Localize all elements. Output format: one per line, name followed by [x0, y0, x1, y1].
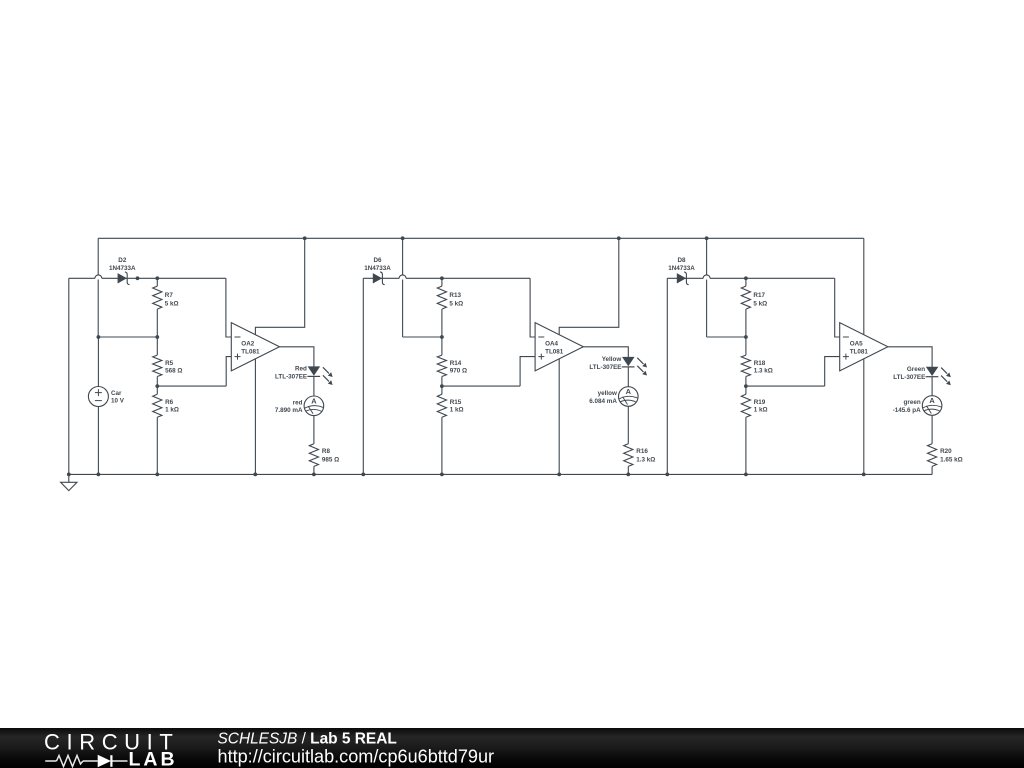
svg-text:R18: R18: [754, 360, 766, 367]
op-amp OA4 TL081: [535, 323, 583, 371]
resistor R16 1.3 kΩ: [624, 444, 633, 467]
svg-text:1 kΩ: 1 kΩ: [450, 407, 464, 414]
resistor R18 1.3 kΩ: [741, 355, 750, 376]
wire: [667, 277, 703, 279]
wire: [97, 238, 99, 275]
svg-text:1 kΩ: 1 kΩ: [754, 407, 768, 414]
resistor R7 5 kΩ: [153, 286, 162, 309]
svg-text:R19: R19: [754, 399, 766, 406]
svg-text:TL081: TL081: [850, 348, 869, 355]
wire: [745, 278, 747, 286]
wire: [68, 278, 70, 474]
svg-text:-145.6 pA: -145.6 pA: [893, 407, 921, 414]
svg-text:LAB: LAB: [129, 748, 178, 768]
wire: [931, 415, 933, 444]
node: [744, 384, 748, 388]
zener diode D2 1N4733A: [118, 274, 126, 283]
wire: [583, 347, 628, 357]
wire: [745, 386, 747, 394]
svg-text:R7: R7: [165, 292, 174, 299]
wire: [156, 377, 158, 387]
svg-text:R15: R15: [450, 399, 462, 406]
wire: [156, 386, 158, 394]
node top rail junction dots: [303, 236, 307, 240]
wire: [313, 416, 315, 444]
svg-text:1 kΩ: 1 kΩ: [165, 407, 179, 414]
wire: [835, 278, 840, 337]
resistor R15 1 kΩ: [437, 394, 446, 417]
svg-text:LTL-307EE: LTL-307EE: [893, 374, 925, 381]
wire: [157, 385, 226, 387]
wire: [706, 280, 708, 338]
wire: [98, 336, 157, 338]
wire: [156, 309, 158, 337]
resistor R19 1 kΩ: [741, 394, 750, 417]
svg-text:A: A: [626, 387, 632, 396]
wire: [313, 466, 315, 474]
wire: [441, 417, 443, 474]
svg-text:970 Ω: 970 Ω: [450, 368, 467, 375]
svg-text:R20: R20: [940, 448, 952, 455]
svg-text:5 kΩ: 5 kΩ: [165, 301, 179, 308]
logo diode: [98, 755, 111, 767]
logo wire: [83, 760, 98, 762]
svg-text:1.3 kΩ: 1.3 kΩ: [754, 368, 773, 375]
svg-text:OA5: OA5: [850, 341, 863, 348]
wire: [745, 377, 747, 387]
node diode pin dot: [136, 276, 140, 280]
ammeter green -145.6 pA: [922, 396, 942, 416]
resistor R13 5 kΩ: [437, 286, 446, 309]
resistor R6 1 kΩ: [153, 394, 162, 417]
resistor R8 985 Ω: [309, 444, 318, 467]
wire: [102, 277, 226, 279]
svg-text:Car: Car: [111, 390, 122, 397]
ammeter yellow 6.084 mA: [619, 387, 639, 407]
svg-text:A: A: [311, 397, 317, 406]
svg-text:Red: Red: [295, 366, 307, 373]
wire: [255, 238, 304, 334]
wire top supply rail: [98, 237, 864, 239]
wire: [441, 377, 443, 387]
wire: [745, 337, 747, 355]
wire: [863, 359, 865, 475]
wire: [226, 278, 231, 337]
wire: [441, 309, 443, 337]
resistor R20 1.65 kΩ: [928, 444, 937, 467]
svg-text:R6: R6: [165, 399, 174, 406]
svg-text:6.084 mA: 6.084 mA: [589, 398, 617, 405]
svg-text:LTL-307EE: LTL-307EE: [589, 364, 621, 371]
svg-text:5 kΩ: 5 kΩ: [449, 301, 463, 308]
svg-text:R13: R13: [449, 292, 461, 299]
svg-text:568 Ω: 568 Ω: [165, 368, 182, 375]
svg-text:R14: R14: [450, 360, 462, 367]
node: [97, 335, 101, 339]
wire: [558, 359, 560, 475]
logo wire: [113, 760, 128, 762]
wire crossover hop: [399, 275, 406, 278]
svg-text:R16: R16: [636, 448, 648, 455]
LED Red LTL-307EE: [308, 367, 319, 376]
node: [440, 384, 444, 388]
node: [744, 335, 748, 339]
op-amp OA2 TL081: [231, 323, 279, 371]
wire: [402, 238, 404, 275]
svg-text:5 kΩ: 5 kΩ: [753, 301, 767, 308]
logo wire: [45, 760, 56, 762]
svg-text:1.65 kΩ: 1.65 kΩ: [940, 457, 963, 464]
wire: [363, 277, 399, 279]
svg-text:1N4733A: 1N4733A: [668, 265, 695, 272]
svg-text:red: red: [293, 399, 303, 406]
wire: [97, 280, 99, 338]
wire crossover hop: [703, 275, 710, 278]
wire: [707, 336, 746, 338]
svg-text:1.3 kΩ: 1.3 kΩ: [636, 457, 655, 464]
wire: [627, 367, 629, 387]
wire bottom ground rail: [69, 473, 932, 475]
svg-text:A: A: [929, 396, 935, 405]
wire: [280, 347, 314, 367]
wire: [441, 386, 443, 394]
svg-text:R8: R8: [322, 448, 331, 455]
resistor R5 568 Ω: [153, 355, 162, 376]
wire: [442, 385, 520, 387]
wire: [745, 417, 747, 474]
wire: [69, 277, 95, 279]
wire: [254, 359, 256, 475]
wire: [888, 347, 932, 367]
wire: [706, 238, 708, 275]
svg-text:7.890 mA: 7.890 mA: [275, 407, 303, 414]
wire: [559, 238, 619, 334]
svg-text:985 Ω: 985 Ω: [322, 457, 339, 464]
wire: [403, 336, 442, 338]
node bottom rail junction dots: [67, 473, 71, 477]
voltage source Car 10 V: [88, 387, 108, 407]
svg-text:SCHLESJB / Lab 5 REAL: SCHLESJB / Lab 5 REAL: [218, 731, 397, 748]
svg-text:1N4733A: 1N4733A: [109, 265, 136, 272]
svg-text:OA4: OA4: [545, 341, 558, 348]
wire: [520, 357, 535, 387]
wire: [313, 376, 315, 396]
svg-text:Yellow: Yellow: [602, 356, 622, 363]
svg-text:1N4733A: 1N4733A: [364, 265, 391, 272]
wire: [97, 337, 99, 387]
zener diode D8 1N4733A: [677, 274, 685, 283]
svg-text:yellow: yellow: [598, 390, 617, 397]
node: [155, 335, 159, 339]
node: [155, 276, 159, 280]
wire: [441, 278, 443, 286]
wire: [226, 357, 231, 387]
node: [440, 276, 444, 280]
wire: [156, 278, 158, 286]
ground: [68, 474, 70, 482]
svg-text:D8: D8: [677, 257, 686, 264]
wire: [156, 417, 158, 474]
wire: [402, 280, 404, 338]
wire: [530, 278, 535, 337]
wire: [362, 278, 364, 474]
wire: [931, 377, 933, 396]
wire: [710, 277, 835, 279]
svg-text:green: green: [904, 399, 921, 406]
wire: [627, 466, 629, 474]
node: [440, 335, 444, 339]
wire: [441, 337, 443, 355]
svg-text:10 V: 10 V: [111, 398, 125, 405]
wire: [97, 407, 99, 475]
wire: [406, 277, 530, 279]
ammeter red 7.890 mA: [304, 396, 324, 416]
wire: [156, 337, 158, 355]
svg-text:LTL-307EE: LTL-307EE: [275, 374, 307, 381]
wire: [863, 238, 865, 334]
resistor R17 5 kΩ: [741, 286, 750, 309]
LED Green LTL-307EE: [926, 367, 937, 376]
wire crossover hop: [95, 275, 102, 278]
svg-text:D2: D2: [118, 257, 127, 264]
svg-text:R17: R17: [753, 292, 765, 299]
svg-text:TL081: TL081: [545, 348, 564, 355]
node: [744, 276, 748, 280]
svg-text:OA2: OA2: [241, 341, 254, 348]
svg-text:R5: R5: [165, 360, 174, 367]
LED Yellow LTL-307EE: [623, 357, 634, 366]
node: [155, 384, 159, 388]
wire: [825, 357, 840, 387]
zener diode D6 1N4733A: [373, 274, 381, 283]
wire: [627, 406, 629, 444]
svg-text:D6: D6: [373, 257, 382, 264]
svg-text:Green: Green: [907, 366, 925, 373]
wire: [931, 466, 933, 474]
wire: [666, 278, 668, 474]
op-amp OA5 TL081: [840, 323, 888, 371]
wire: [746, 385, 825, 387]
svg-text:TL081: TL081: [241, 348, 260, 355]
logo resistor: [57, 756, 84, 767]
wire: [745, 309, 747, 337]
resistor R14 970 Ω: [437, 355, 446, 376]
svg-text:http://circuitlab.com/cp6u6btt: http://circuitlab.com/cp6u6bttd79ur: [218, 746, 495, 766]
